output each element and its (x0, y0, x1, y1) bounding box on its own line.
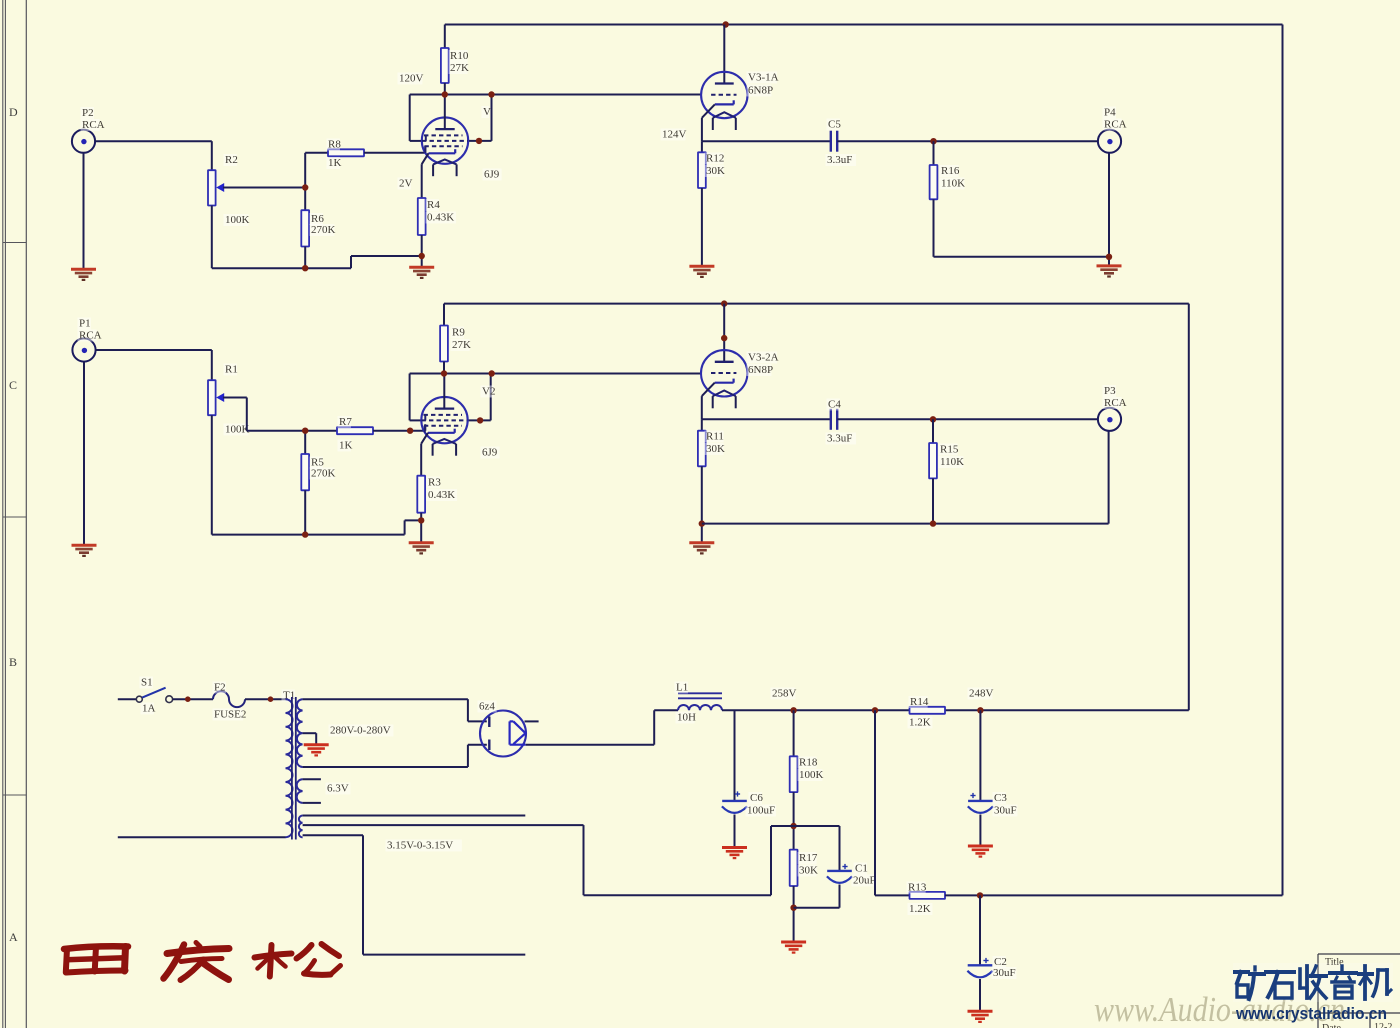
svg-text:R4: R4 (427, 199, 440, 211)
svg-text:1.2K: 1.2K (909, 717, 931, 729)
svg-text:1A: 1A (142, 703, 156, 715)
svg-text:RCA: RCA (1104, 397, 1127, 409)
svg-text:RCA: RCA (82, 119, 105, 131)
svg-text:270K: 270K (311, 468, 336, 480)
svg-text:280V-0-280V: 280V-0-280V (330, 725, 391, 737)
svg-text:R15: R15 (940, 444, 959, 456)
svg-text:R8: R8 (328, 139, 341, 151)
svg-text:1K: 1K (339, 440, 353, 452)
svg-text:30K: 30K (706, 443, 725, 455)
svg-text:D: D (9, 105, 18, 119)
svg-text:RCA: RCA (1104, 119, 1127, 131)
svg-text:F2: F2 (214, 682, 226, 694)
svg-text:3.3uF: 3.3uF (827, 154, 852, 166)
svg-text:A: A (9, 930, 18, 944)
svg-text:3.3uF: 3.3uF (827, 433, 852, 445)
svg-text:R12: R12 (706, 153, 724, 165)
svg-text:C5: C5 (828, 119, 841, 131)
svg-text:R16: R16 (941, 165, 960, 177)
svg-text:6J9: 6J9 (482, 447, 498, 459)
svg-text:V: V (483, 106, 491, 118)
svg-text:C4: C4 (828, 399, 841, 411)
svg-text:100uF: 100uF (747, 805, 775, 817)
svg-text:27K: 27K (450, 62, 469, 74)
svg-text:270K: 270K (311, 224, 336, 236)
svg-text:R7: R7 (339, 416, 352, 428)
svg-text:B: B (9, 655, 17, 669)
svg-text:120V: 120V (399, 73, 424, 85)
svg-text:P2: P2 (82, 107, 94, 119)
svg-text:1K: 1K (328, 157, 342, 169)
svg-text:V2: V2 (482, 386, 495, 398)
svg-text:3.15V-0-3.15V: 3.15V-0-3.15V (387, 840, 453, 852)
svg-text:www.crystalradio.cn: www.crystalradio.cn (1235, 1005, 1387, 1023)
svg-text:C6: C6 (750, 792, 763, 804)
svg-text:30uF: 30uF (994, 805, 1017, 817)
svg-text:6z4: 6z4 (479, 701, 495, 713)
svg-text:P3: P3 (1104, 385, 1116, 397)
svg-text:6N8P: 6N8P (748, 364, 773, 376)
svg-text:30K: 30K (706, 165, 725, 177)
svg-text:R13: R13 (908, 882, 927, 894)
svg-text:248V: 248V (969, 688, 994, 700)
svg-text:FUSE2: FUSE2 (214, 709, 246, 721)
svg-text:RCA: RCA (79, 330, 102, 342)
svg-text:0.43K: 0.43K (428, 489, 455, 501)
svg-text:R1: R1 (225, 364, 238, 376)
svg-text:6N8P: 6N8P (748, 85, 773, 97)
svg-text:R2: R2 (225, 154, 238, 166)
svg-text:R18: R18 (799, 757, 818, 769)
svg-text:L1: L1 (676, 682, 688, 694)
svg-text:S1: S1 (141, 677, 153, 689)
svg-text:R17: R17 (799, 852, 818, 864)
svg-text:20uF: 20uF (853, 875, 876, 887)
svg-text:C: C (9, 378, 17, 392)
svg-text:C3: C3 (994, 792, 1007, 804)
svg-text:258V: 258V (772, 688, 797, 700)
svg-text:R11: R11 (706, 431, 724, 443)
svg-text:124V: 124V (662, 129, 687, 141)
svg-text:6.3V: 6.3V (327, 783, 349, 795)
svg-text:P1: P1 (79, 318, 91, 330)
svg-text:R10: R10 (450, 50, 469, 62)
svg-text:0.43K: 0.43K (427, 212, 454, 224)
svg-text:P4: P4 (1104, 107, 1116, 119)
svg-text:R14: R14 (910, 696, 929, 708)
svg-text:C1: C1 (855, 863, 868, 875)
svg-text:30uF: 30uF (993, 967, 1016, 979)
svg-text:6J9: 6J9 (484, 169, 500, 181)
svg-text:110K: 110K (941, 178, 965, 190)
svg-text:110K: 110K (940, 456, 964, 468)
svg-text:27K: 27K (452, 339, 471, 351)
svg-text:100K: 100K (225, 214, 250, 226)
svg-text:100K: 100K (799, 769, 824, 781)
svg-text:R9: R9 (452, 327, 465, 339)
svg-text:V3-2A: V3-2A (748, 352, 779, 364)
svg-text:R3: R3 (428, 477, 441, 489)
svg-text:30K: 30K (799, 865, 818, 877)
svg-text:10H: 10H (677, 712, 696, 724)
svg-text:1.2K: 1.2K (909, 903, 931, 915)
svg-text:2V: 2V (399, 178, 413, 190)
svg-text:V3-1A: V3-1A (748, 72, 779, 84)
